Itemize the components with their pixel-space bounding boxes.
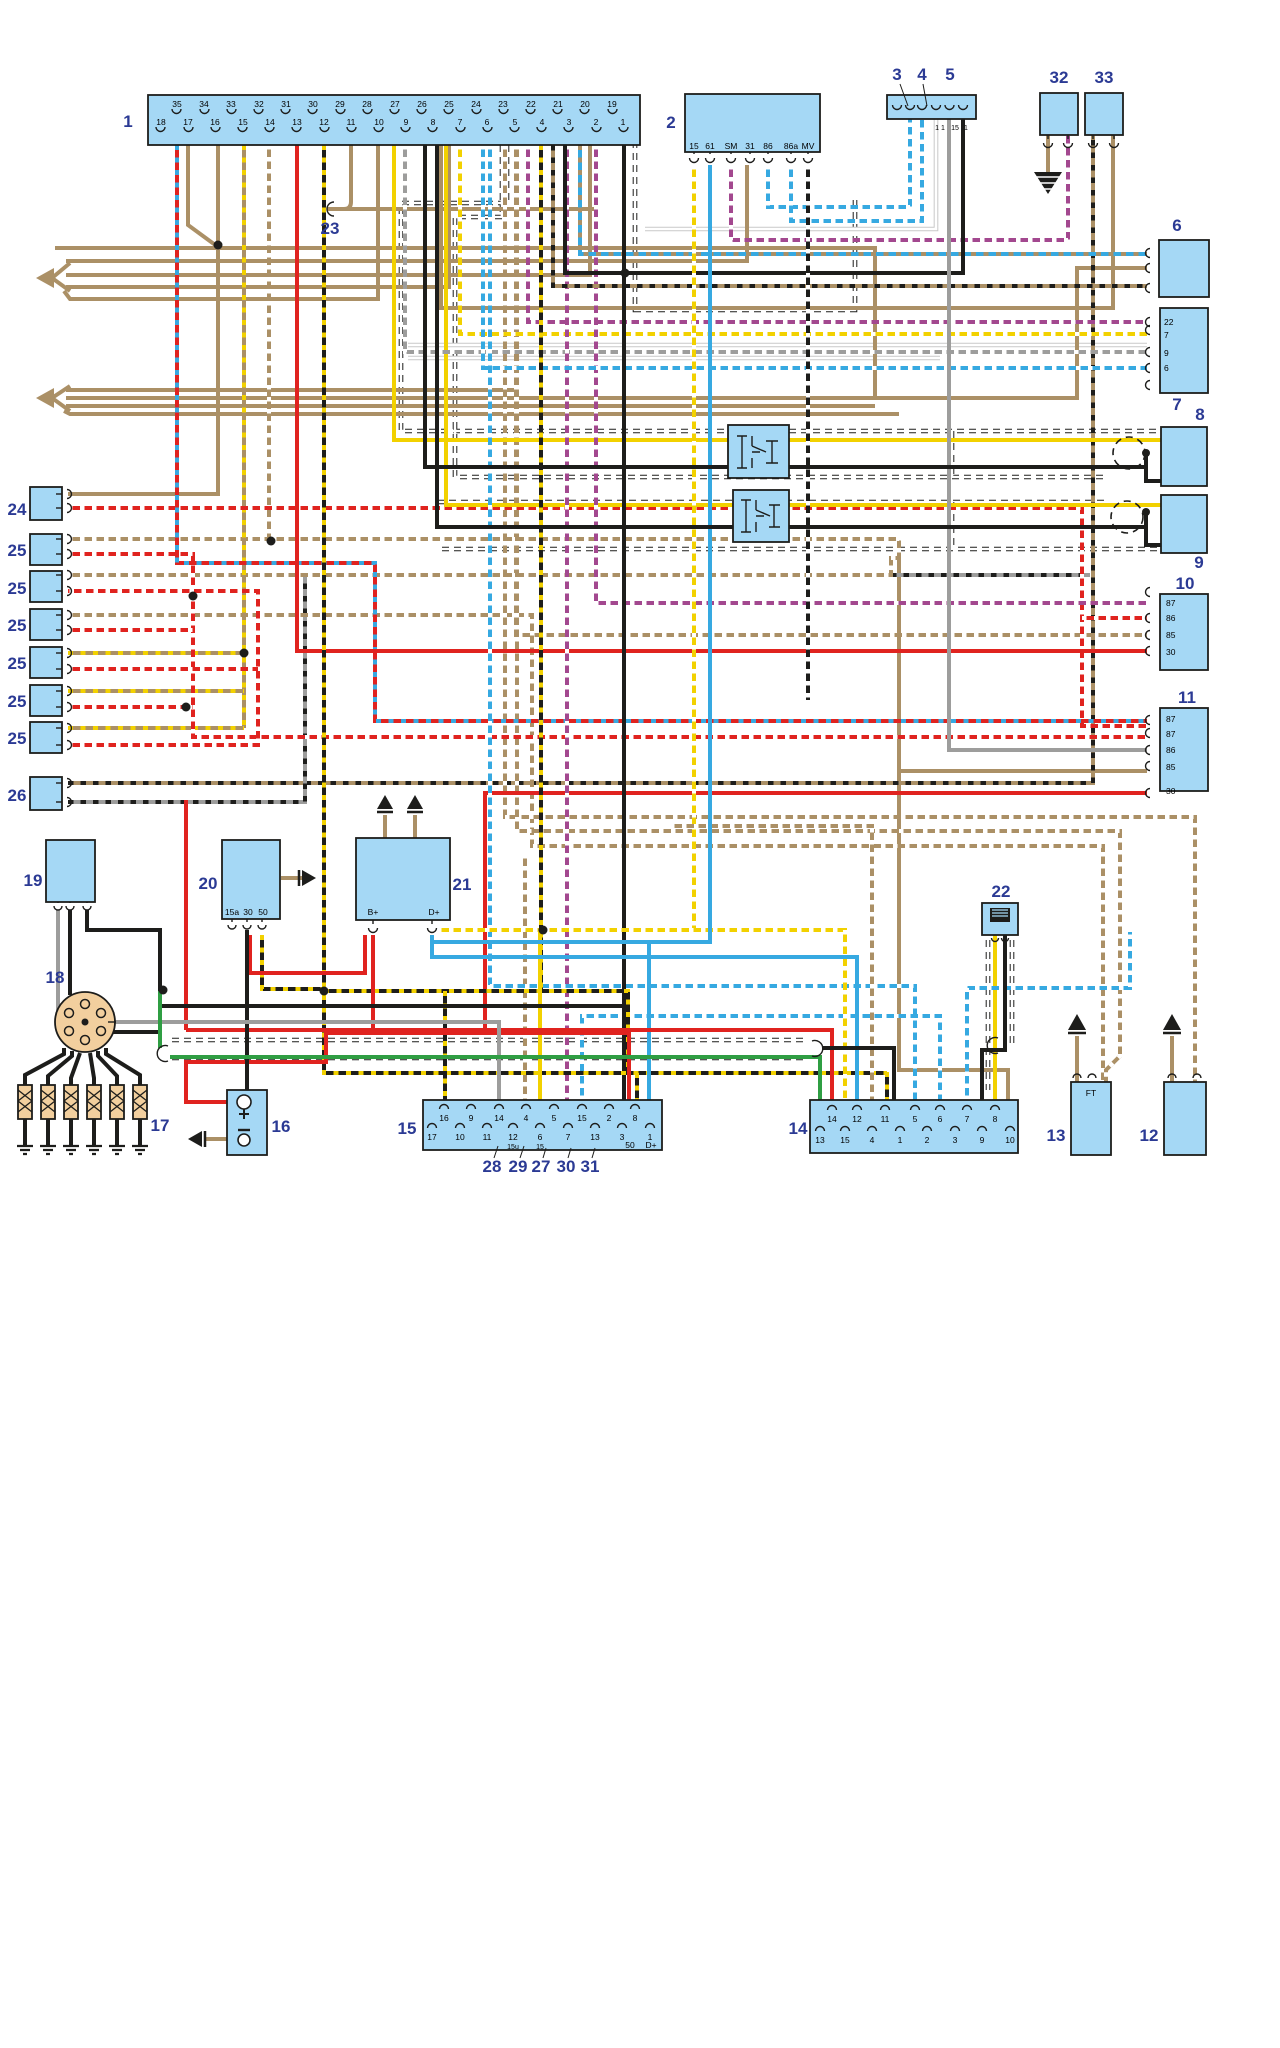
wire cyan-white unit1 long to connector14 pin5 [490,145,915,1100]
unit5 connector symbols [893,105,902,110]
connector hook right near connector14 [812,1041,823,1057]
unit 25b box [30,571,62,602]
wire red bottom bus to connector14 pin15 [186,1030,832,1100]
frame arrow above unit21 right [407,795,423,809]
wire black-yellow unit1 drop x324 to connector15 pin8 [324,145,887,1100]
svg-text:15: 15 [840,1135,850,1145]
wire cyan-white unit1 to unit6 pin1 [580,145,1147,254]
wire yellow-white unit1 to unit7 pin7 [460,145,1147,334]
svg-text:28: 28 [362,99,372,109]
wire tan-white into connector15 pin4 [523,854,527,1100]
spark plug 4 [86,1085,102,1154]
wire red solid unit1 to unit10 pin30 [297,145,1147,651]
wire tan-white loop B unit1 to unit12 [517,145,1120,1082]
wire yellow-gray unit2 pin15 drop [692,165,696,930]
wire tan bundle1 line3 to unit1 pin [66,145,449,287]
frame arrow above unit21 left [377,795,393,809]
wire black-yellow unit20 pin50 drop [262,935,324,989]
wire yellow-white bottom run to connector14 pin15 [437,930,845,1100]
wire tan-white into connector14 pin4 [670,826,872,1100]
svg-text:14: 14 [265,117,275,127]
svg-text:16: 16 [272,1117,291,1136]
wire tan bundle2 line3 to unit6 pin2 [66,404,875,408]
svg-text:25: 25 [8,692,27,711]
svg-text:3: 3 [953,1135,958,1145]
svg-text:9: 9 [1164,348,1169,358]
svg-text:6: 6 [1164,363,1169,373]
connector 15 strip [423,1100,662,1150]
svg-text:15a: 15a [225,907,239,917]
wire harness arrow left second [52,386,70,411]
wire black-yellow loop x628 [324,991,628,1073]
svg-text:5: 5 [513,117,518,127]
wire cyan-white unit1 to unit7 pin6 [483,145,1147,368]
svg-text:25: 25 [8,654,27,673]
relay K1 internals [737,436,778,468]
dashed outline around unit22 drop [988,940,1012,1090]
wire tan unit21 frame arrows stubs [383,815,387,838]
svg-text:20: 20 [199,874,218,893]
wire cyan branch into connector15 pin1 [647,942,651,1100]
svg-text:15: 15 [536,1144,544,1151]
svg-text:10: 10 [1005,1135,1015,1145]
unit 1 control box [148,95,640,145]
svg-text:17: 17 [151,1116,170,1135]
svg-text:4: 4 [917,65,927,84]
svg-text:11: 11 [881,1114,890,1124]
svg-text:1: 1 [621,117,626,127]
thin white wire from unit5 pin4 [645,119,936,229]
svg-text:23: 23 [498,99,508,109]
wire harness arrow left top [52,263,70,291]
svg-text:6: 6 [538,1132,543,1142]
wire tan bundle2 line2 to unit1 pin [66,268,1147,398]
wire tan-black striped unit26 pin1 to unit33 [68,135,1093,783]
spark plug 3 [63,1085,79,1154]
battery minus terminal [238,1129,250,1131]
svg-text:16: 16 [439,1113,449,1123]
svg-text:5: 5 [552,1113,557,1123]
wire black stub into distributor [112,1006,160,1032]
unit 21 box [356,838,450,920]
connector hook green left [157,1046,168,1062]
svg-text:8: 8 [431,117,436,127]
thin white wire run1 [408,343,1147,348]
dashed wire from unit5 pin4 area [635,145,855,310]
svg-text:13: 13 [815,1135,825,1145]
svg-text:2: 2 [925,1135,930,1145]
unit 2 box [685,94,820,152]
svg-text:2: 2 [666,113,675,132]
wire green long run to connector14 pin13 [170,1057,820,1100]
unit 25d box [30,647,62,678]
wire gray unit19 pin1 to connector15 pin14 [58,910,499,1100]
dashed circle before unit8 [1113,437,1145,469]
svg-text:7: 7 [1172,395,1181,414]
wire tan bundle1 line1 to unit2 pin31 [66,165,747,261]
unit 32 box [1040,93,1078,135]
wire cyan-white connector14 pin7 loop [967,932,1130,1100]
wire tan-black unit1 to unit6 pin3 [553,145,1147,286]
svg-text:2: 2 [607,1113,612,1123]
unit 12 box [1164,1082,1206,1155]
relay K1 box [728,425,789,478]
svg-text:32: 32 [254,99,264,109]
svg-text:9: 9 [469,1113,474,1123]
wire tan bundle1 line4 to unit1 pin [64,145,378,299]
unit 19 box [46,840,95,902]
svg-text:26: 26 [417,99,427,109]
svg-text:3: 3 [620,1132,625,1142]
svg-text:85: 85 [1166,762,1176,772]
wire cyan unit21 D+ to unit2 pin61 [432,165,710,942]
wire tan unit32 ground stub [1046,135,1050,172]
wire tan unit23 inline connector left part [337,145,351,209]
svg-text:12: 12 [508,1132,518,1142]
wire tan vertical to connector14 pin10 [899,556,1008,1100]
unit 11 box [1160,708,1208,791]
svg-text:12: 12 [319,117,329,127]
svg-text:7: 7 [458,117,463,127]
svg-text:85: 85 [1166,630,1176,640]
dashed circle before unit9 [1111,501,1143,533]
svg-text:SM: SM [725,141,738,151]
wire gray-white unit1 to unit7 pin9 [405,145,1147,352]
svg-text:2: 2 [594,117,599,127]
connector 14 strip [810,1100,1018,1153]
svg-text:21: 21 [453,875,472,894]
svg-text:5: 5 [945,65,954,84]
svg-text:13: 13 [292,117,302,127]
wire tan unit12 arrow stub [1170,1036,1174,1082]
svg-text:3: 3 [567,117,572,127]
battery plus terminal [237,1095,251,1109]
svg-text:14: 14 [827,1114,837,1124]
frame arrow above unit12 [1163,1014,1181,1030]
svg-text:6: 6 [938,1114,943,1124]
unit 8 box [1161,427,1207,486]
wire yellow unit22 to connector14 pin8 [993,935,997,1100]
wire tan-white unit25a pin1 [68,539,899,556]
svg-text:21: 21 [553,99,563,109]
unit 6 box [1159,240,1209,297]
svg-text:19: 19 [24,871,43,890]
wire black-yellow branch to connector14 pin11 [885,1072,889,1100]
svg-text:MV: MV [802,141,815,151]
terminal connector symbols of units 24 25 26 [67,490,72,499]
svg-text:50: 50 [258,907,268,917]
wire cyan-white connector15 pin15 to connector14 pin6 [582,1016,940,1100]
svg-text:8: 8 [993,1114,998,1124]
wire red-cyan striped unit1 pin1 to unit11 pin87 [177,145,1147,721]
wire green junction to connector hook [158,991,162,1048]
unit 13 box [1071,1082,1111,1155]
spark plug 2 [40,1085,56,1154]
svg-text:30: 30 [557,1157,576,1176]
wire red-white unit25b pin2 vertical x258 [68,591,258,745]
svg-text:25: 25 [8,616,27,635]
svg-text:15: 15 [689,141,699,151]
wire tan to unit11 pin85 [899,769,1147,773]
svg-text:15u: 15u [507,1144,519,1151]
svg-text:1: 1 [964,125,968,132]
spark plug 6 [132,1085,148,1154]
svg-text:10: 10 [374,117,384,127]
wire tan unit1 pin x553 to relay area down [516,145,1147,635]
unit 3-4-5 switch box [887,95,976,119]
dashed optional wire from unit1 via x412 around relays [401,145,1160,431]
svg-text:16: 16 [210,117,220,127]
wire red-white unit25e pin2 [68,705,193,709]
wire black-yellow branch into connector15 pin16 [443,991,447,1100]
svg-text:9: 9 [1194,553,1203,572]
svg-text:9: 9 [404,117,409,127]
wire tan bundle2 line4 to connector14 pin10 [64,411,899,414]
unit 25a box [30,534,62,565]
spark plug leads from distributor [25,1048,64,1085]
wire tan-white unit1 pin x269 drop [267,145,271,542]
wire yellow unit1 to unit8 [394,145,1161,440]
wire tan bundle1 line2 to unit1 pin [66,145,590,275]
svg-text:6: 6 [485,117,490,127]
svg-text:8: 8 [633,1113,638,1123]
dashed rails around green wire [172,1040,808,1058]
wire purple-gray unit1 to unit10 pin87 [596,145,1147,603]
svg-text:87: 87 [1166,598,1176,608]
wire red-white net units25 vertical x193 long to unit11 pin87b [68,554,1147,737]
spark plug 5 [109,1085,125,1154]
side arrow left of unit16 [188,1131,202,1147]
wire yellow solid into connector15 pin6 [538,930,542,1100]
thin white wire run2 [408,356,940,361]
unit 9 box [1161,495,1207,553]
svg-text:33: 33 [1095,68,1114,87]
side arrow right of unit20 [302,870,316,886]
ground symbol under unit32 [1034,172,1062,194]
svg-text:13: 13 [590,1132,600,1142]
svg-text:22: 22 [1164,317,1174,327]
svg-text:25: 25 [8,541,27,560]
wire black unit19 pin2 to distributor [68,910,72,995]
svg-text:18: 18 [156,117,166,127]
unit21 terminal connector symbols [369,928,378,933]
wire tan bundle2 line1 [66,388,516,392]
unit 22 box [982,903,1018,935]
svg-text:28: 28 [483,1157,502,1176]
wire red unit21 B+ to battery plus [371,935,375,1030]
svg-text:10: 10 [455,1132,465,1142]
wire black unit20 pin30 to battery plus [245,930,249,1096]
svg-text:12: 12 [852,1114,862,1124]
wire tan diagonal unit1 pin to junction [188,145,218,247]
dashed optional wire from unit1 via x417 [455,145,1105,477]
spark plug 1 [17,1085,33,1154]
unit 7 box [1160,308,1208,393]
svg-text:32: 32 [1050,68,1069,87]
svg-text:14: 14 [789,1119,808,1138]
svg-text:24: 24 [8,500,27,519]
wire black unit9 feed [437,145,1161,545]
wire red-white unit25c pin2 [68,628,193,632]
unit2 terminal connector symbols [690,158,699,163]
unit 16 battery box [227,1090,267,1155]
svg-text:1 1: 1 1 [935,125,945,132]
dashed link between relay rails [950,431,955,549]
svg-text:29: 29 [509,1157,528,1176]
wire tan-white unit25c pin1 to unit13 [68,615,1103,1082]
svg-text:86: 86 [763,141,773,151]
wire black long vertical unit1 pin1 [622,145,626,1100]
wire MV black-gray drop from unit2 [806,165,810,700]
svg-text:17: 17 [183,117,193,127]
svg-text:27: 27 [390,99,400,109]
svg-text:19: 19 [607,99,617,109]
wire cyan-gray unit2 pin86a to unit5 pin3 [791,119,922,221]
svg-text:3: 3 [892,65,901,84]
svg-text:6: 6 [1172,216,1181,235]
wire red-white unit24 pin2 to unit10 pin86 and unit11 pin87b [68,508,1147,726]
svg-text:27: 27 [532,1157,551,1176]
svg-text:D+: D+ [645,1140,656,1150]
unit 33 box [1085,93,1123,135]
junction dots [214,241,223,250]
svg-text:15: 15 [577,1113,587,1123]
svg-text:87: 87 [1166,729,1176,739]
svg-text:17: 17 [427,1132,437,1142]
svg-text:11: 11 [1178,688,1196,707]
svg-text:23: 23 [321,219,340,238]
wire red battery loop to connector15 pin50 [186,1033,629,1102]
svg-text:7: 7 [1164,330,1169,340]
svg-text:24: 24 [471,99,481,109]
svg-text:31: 31 [581,1157,600,1176]
svg-text:31: 31 [745,141,755,151]
svg-text:86: 86 [1166,745,1176,755]
wire tan unit23 inline connector right part [327,145,596,209]
dashed rail relay2 top [437,500,1105,505]
svg-text:30: 30 [1166,647,1176,657]
svg-text:25: 25 [8,729,27,748]
wire yellow unit1 to unit9 [446,145,1161,505]
unit 10 box [1160,594,1208,670]
wire gray solid unit5 pin5 to unit11 pin86 [949,119,1147,750]
svg-text:33: 33 [226,99,236,109]
svg-text:50: 50 [625,1140,635,1150]
svg-text:34: 34 [199,99,209,109]
dashed rail relay2 bottom [442,547,1160,552]
wire tan unit24 pin1 U-shape via x218 [68,145,218,494]
svg-text:22: 22 [526,99,536,109]
unit13 unit12 terminal connector symbols [1073,1074,1081,1078]
svg-text:25: 25 [444,99,454,109]
svg-text:15: 15 [238,117,248,127]
wire red unit20 pin30 to unit21 B+ [250,935,365,973]
svg-text:11: 11 [347,117,356,127]
svg-text:18: 18 [46,968,65,987]
svg-text:86: 86 [1166,613,1176,623]
svg-text:7: 7 [566,1132,571,1142]
svg-text:4: 4 [524,1113,529,1123]
unit32 unit33 terminal connector symbols [1044,143,1053,148]
svg-text:86a: 86a [784,141,798,151]
wire red main feed to battery plus [184,800,188,1030]
svg-text:14: 14 [494,1113,504,1123]
svg-text:29: 29 [335,99,345,109]
wire tan-white unit25b pin1 [68,558,899,575]
wire red-white unit25d pin2 [68,667,258,671]
connector hook near unit22 drop [987,1038,998,1054]
wire black unit22 to connector14 pin9 [982,935,1005,1100]
svg-text:30: 30 [243,907,253,917]
frame arrow above unit13 [1068,1014,1086,1030]
svg-text:10: 10 [1176,574,1195,593]
svg-text:15: 15 [398,1119,417,1138]
svg-text:15: 15 [951,125,959,132]
svg-text:1: 1 [123,112,132,131]
wire black-yellow unit1 drop x541 [539,145,543,991]
svg-text:30: 30 [308,99,318,109]
wire tan unit1 to unit33 pin2 via y308 [441,135,1113,308]
unit 25e box [30,685,62,716]
svg-text:D+: D+ [428,907,439,917]
wire tan unit20 side arrow stub [281,876,302,880]
unit20 terminal connector symbols [228,925,236,929]
svg-text:8: 8 [1195,405,1204,424]
unit 25c box [30,609,62,640]
unit19 terminal connector symbols [54,906,62,910]
svg-text:5: 5 [913,1114,918,1124]
svg-text:1: 1 [898,1135,903,1145]
svg-text:FT: FT [1086,1088,1096,1098]
wire black hook to connector14 pin14 [822,1048,894,1100]
wire gray-black striped unit26 pin2 long [68,575,1090,802]
svg-text:31: 31 [281,99,291,109]
svg-text:11: 11 [483,1132,492,1142]
svg-text:13: 13 [1047,1126,1066,1145]
wire black unit8 feed [425,145,1161,481]
wire cyan unit21 D+ to connector14 pin11 [432,935,857,1100]
unit 24 box [30,487,62,520]
svg-text:22: 22 [992,882,1011,901]
svg-text:30: 30 [1166,786,1176,796]
wire tan-white loop A unit1 to unit12 [505,145,1195,1082]
svg-text:61: 61 [705,141,715,151]
unit 25f box [30,722,62,753]
svg-text:B+: B+ [368,907,379,917]
unit22 terminal connector symbols [992,938,999,942]
wire black unit19 pin3 long to connector14 pin12 [87,910,624,1006]
connector hook on tan wire 23 [327,202,334,216]
wire tan unit13 arrow stub [1075,1036,1079,1082]
svg-text:35: 35 [172,99,182,109]
wire purple-gray unit2 SM to unit32 [731,135,1068,240]
terminal connector symbols of units 6 7 10 11 [1146,249,1151,258]
wire black solid unit5 pin6 long [565,119,963,273]
unit 20 box [222,840,280,919]
wire tan bus horizontal y245 to unit 33 [55,248,875,398]
svg-text:12: 12 [1140,1126,1159,1145]
wire cyan-gray unit2 pin86 to unit5 pin2 [768,119,910,207]
wire purple-gray unit1 to unit7 pin22 [528,145,1147,322]
unit 22 internal symbol [990,908,1010,922]
wire tan unit16 minus lead [205,1137,244,1141]
svg-text:20: 20 [580,99,590,109]
relay K2 internals [741,500,780,532]
svg-text:4: 4 [870,1135,875,1145]
svg-text:26: 26 [8,786,27,805]
wire tan-yellow striped net of units25d/e/f [242,145,246,728]
wire red solid unit11 pin30 loop to battery net [485,793,1147,1030]
